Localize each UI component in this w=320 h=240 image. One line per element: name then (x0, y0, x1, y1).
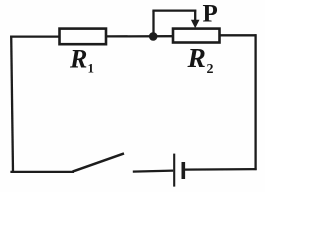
resistor R1 (60, 29, 107, 45)
svg-text:P: P (203, 1, 218, 28)
wiper arrowhead (191, 20, 200, 28)
switch blade (73, 153, 124, 171)
wire battery to switch (133, 171, 173, 172)
wire bottom-left (10, 171, 74, 173)
wire wiper riser vertical (152, 11, 154, 37)
battery short plate (+ thick) (182, 162, 186, 179)
wire left vertical (11, 36, 13, 173)
wire bottom-right to battery (184, 168, 257, 171)
svg-text:R: R (187, 42, 206, 73)
wire wiper top horizontal (152, 9, 196, 11)
wire right vertical (254, 34, 256, 170)
svg-text:1: 1 (88, 61, 95, 76)
svg-text:R: R (69, 45, 87, 74)
potentiometer R2 (173, 29, 220, 43)
svg-text:2: 2 (207, 62, 214, 77)
wire R2 to right (220, 34, 257, 36)
wire R1 to R2 (106, 35, 175, 38)
wiper arrow shaft P (194, 10, 196, 21)
node junction dot (149, 32, 158, 41)
wire top-left horizontal (10, 35, 60, 37)
battery long plate (173, 154, 175, 187)
